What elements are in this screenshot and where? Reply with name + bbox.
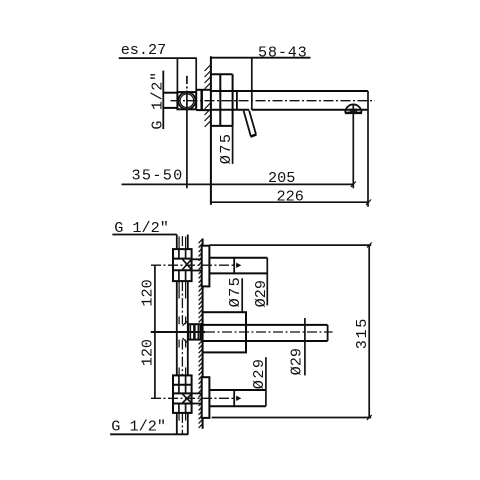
svg-text:Ø75: Ø75 <box>226 276 244 308</box>
svg-text:Ø29: Ø29 <box>288 348 306 375</box>
svg-text:120: 120 <box>139 279 157 306</box>
svg-text:G 1/2": G 1/2" <box>111 418 166 436</box>
svg-text:Ø29: Ø29 <box>250 358 268 390</box>
svg-text:es.27: es.27 <box>121 41 167 59</box>
svg-text:58-43: 58-43 <box>258 44 308 62</box>
svg-text:315: 315 <box>353 317 371 349</box>
svg-text:Ø29: Ø29 <box>252 280 270 307</box>
svg-text:120: 120 <box>139 339 157 366</box>
svg-text:35-50: 35-50 <box>132 167 184 185</box>
